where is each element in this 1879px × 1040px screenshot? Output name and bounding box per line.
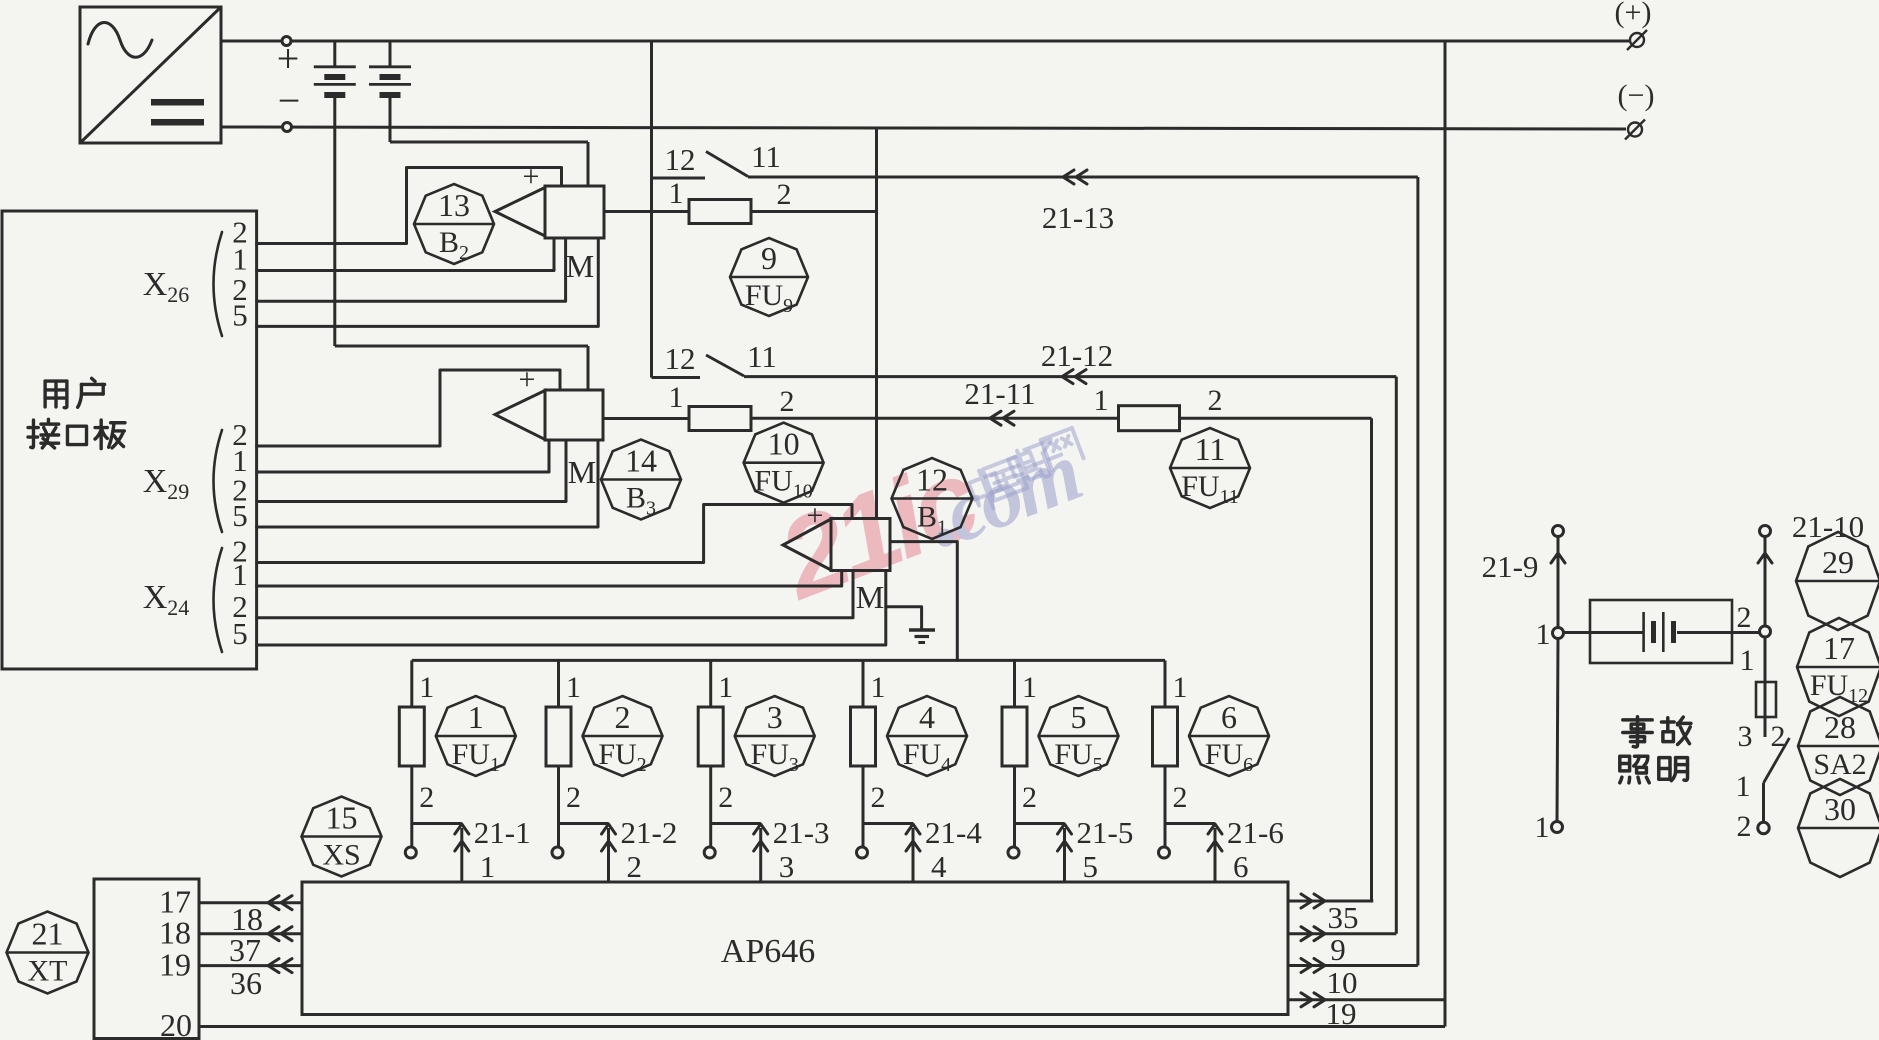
svg-text:21-9: 21-9 xyxy=(1482,549,1539,584)
svg-text:1: 1 xyxy=(669,381,684,414)
svg-text:M: M xyxy=(566,248,594,284)
svg-text:21-13: 21-13 xyxy=(1042,200,1114,235)
svg-text:21-11: 21-11 xyxy=(964,376,1035,411)
svg-text:13: 13 xyxy=(438,187,470,223)
svg-text:3: 3 xyxy=(779,849,795,884)
svg-text:21: 21 xyxy=(32,916,64,952)
svg-text:1: 1 xyxy=(669,177,684,210)
svg-text:2: 2 xyxy=(871,781,886,814)
svg-text:29: 29 xyxy=(1822,544,1854,580)
svg-text:11: 11 xyxy=(747,339,777,374)
svg-text:XT: XT xyxy=(28,955,68,988)
svg-text:M: M xyxy=(568,454,596,490)
svg-text:1: 1 xyxy=(1094,384,1109,417)
svg-text:9: 9 xyxy=(1330,932,1346,967)
svg-text:11: 11 xyxy=(1195,431,1226,467)
svg-text:6: 6 xyxy=(1233,849,1249,884)
svg-text:30: 30 xyxy=(1824,791,1856,827)
svg-text:2: 2 xyxy=(1737,601,1752,634)
svg-text:2: 2 xyxy=(1771,720,1786,753)
svg-text:1: 1 xyxy=(1022,671,1037,704)
svg-text:21-4: 21-4 xyxy=(925,815,982,850)
svg-text:1: 1 xyxy=(468,699,484,735)
svg-text:1: 1 xyxy=(232,557,248,592)
svg-text:9: 9 xyxy=(761,240,777,276)
svg-text:10: 10 xyxy=(1327,965,1358,1000)
svg-text:2: 2 xyxy=(1737,810,1752,843)
svg-text:5: 5 xyxy=(1071,699,1087,735)
svg-text:3: 3 xyxy=(767,699,783,735)
svg-text:+: + xyxy=(523,160,540,193)
svg-text:1: 1 xyxy=(871,671,886,704)
svg-text:21-6: 21-6 xyxy=(1227,815,1284,850)
svg-text:2: 2 xyxy=(1173,781,1188,814)
svg-text:1: 1 xyxy=(1736,770,1751,803)
svg-text:20: 20 xyxy=(160,1007,192,1040)
svg-text:21-12: 21-12 xyxy=(1041,338,1113,373)
svg-text:1: 1 xyxy=(480,849,496,884)
svg-text:21-3: 21-3 xyxy=(773,815,830,850)
svg-text:6: 6 xyxy=(1221,699,1237,735)
svg-text:2: 2 xyxy=(566,781,581,814)
svg-text:10: 10 xyxy=(768,426,800,462)
svg-text:+: + xyxy=(277,36,300,81)
svg-text:2: 2 xyxy=(1208,384,1223,417)
svg-text:4: 4 xyxy=(931,849,947,884)
svg-text:35: 35 xyxy=(1328,900,1359,935)
svg-text:18: 18 xyxy=(159,915,191,951)
svg-text:11: 11 xyxy=(751,139,781,174)
svg-text:17: 17 xyxy=(1823,630,1855,666)
svg-text:−: − xyxy=(278,78,301,123)
svg-text:1: 1 xyxy=(718,671,733,704)
svg-text:21-2: 21-2 xyxy=(621,815,678,850)
svg-text:2: 2 xyxy=(718,781,733,814)
svg-text:1: 1 xyxy=(1535,811,1550,844)
svg-text:(−): (−) xyxy=(1618,79,1655,112)
svg-text:28: 28 xyxy=(1824,709,1856,745)
svg-text:21-1: 21-1 xyxy=(474,815,531,850)
svg-text:1: 1 xyxy=(566,671,581,704)
svg-text:1: 1 xyxy=(1173,671,1188,704)
svg-text:1: 1 xyxy=(1740,644,1755,677)
svg-text:XS: XS xyxy=(322,839,360,872)
svg-text:2: 2 xyxy=(615,699,631,735)
svg-text:5: 5 xyxy=(232,616,248,651)
svg-text:12: 12 xyxy=(916,462,948,498)
svg-text:36: 36 xyxy=(230,965,262,1001)
svg-text:12: 12 xyxy=(665,341,696,376)
svg-text:15: 15 xyxy=(326,800,358,836)
svg-text:21-5: 21-5 xyxy=(1077,815,1134,850)
svg-text:5: 5 xyxy=(1083,849,1099,884)
svg-text:5: 5 xyxy=(232,297,248,332)
svg-text:14: 14 xyxy=(625,443,657,479)
svg-text:2: 2 xyxy=(627,849,643,884)
svg-text:+: + xyxy=(519,363,536,396)
svg-text:3: 3 xyxy=(1738,720,1753,753)
svg-text:1: 1 xyxy=(1536,618,1551,651)
svg-text:AP646: AP646 xyxy=(721,933,815,970)
svg-text:37: 37 xyxy=(229,932,261,968)
svg-text:SA2: SA2 xyxy=(1813,748,1866,781)
svg-text:19: 19 xyxy=(1326,996,1357,1031)
svg-text:2: 2 xyxy=(780,385,795,418)
svg-text:2: 2 xyxy=(1022,781,1037,814)
svg-text:(+): (+) xyxy=(1615,0,1652,29)
svg-text:1: 1 xyxy=(419,671,434,704)
svg-text:2: 2 xyxy=(419,781,434,814)
svg-text:12: 12 xyxy=(665,142,696,177)
svg-text:M: M xyxy=(856,579,884,615)
svg-text:4: 4 xyxy=(919,699,935,735)
svg-text:2: 2 xyxy=(777,178,792,211)
svg-text:5: 5 xyxy=(232,498,248,533)
svg-text:19: 19 xyxy=(159,947,191,983)
